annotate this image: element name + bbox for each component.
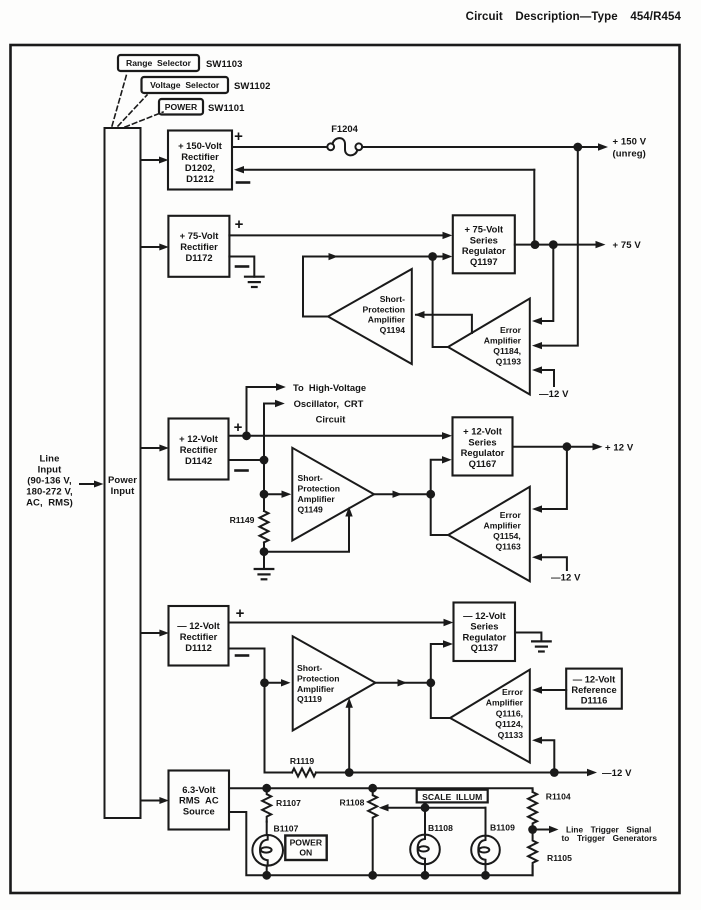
svg-text:+: + [234, 419, 243, 436]
regulator Q1137 box [454, 603, 516, 662]
svg-text:Regulator: Regulator [463, 632, 507, 643]
source 6.3V box [169, 771, 230, 830]
Line Input label [26, 454, 73, 509]
svg-text:Q1116,: Q1116, [496, 708, 523, 718]
node junction Q1149 output [426, 490, 435, 499]
svg-text:—12 V: —12 V [551, 573, 581, 584]
svg-text:Oscillator, CRT: Oscillator, CRT [294, 398, 364, 409]
wire D1142 + to regulator Q1167 [229, 435, 446, 437]
label +150 V (unreg) [613, 137, 647, 160]
svg-text:Circuit Description—Type 454: Circuit Description—Type 454/R454 [466, 11, 682, 23]
svg-text:Error: Error [500, 325, 522, 335]
svg-text:D1172: D1172 [185, 252, 212, 263]
svg-text:F1204: F1204 [331, 123, 358, 134]
svg-text:+ 75-Volt: + 75-Volt [464, 224, 503, 235]
node junction +75V a [531, 240, 540, 249]
svg-text:+ 12-Volt: + 12-Volt [179, 433, 218, 444]
op-amp Q1154 Q1163 error amplifier [448, 487, 530, 582]
wire bus to 6.3V source [141, 800, 162, 802]
wire fuse to +150V output [362, 146, 578, 148]
svg-text:to Trigger Generators: to Trigger Generators [562, 833, 658, 843]
svg-text:Voltage Selector: Voltage Selector [150, 80, 220, 90]
op-amp Q1149 short-protection amplifier [292, 448, 374, 541]
wire error amp Q1184 output to junction [433, 257, 448, 348]
svg-text:Regulator: Regulator [462, 245, 506, 256]
svg-text:ON: ON [299, 848, 312, 858]
node junction top rail R1107 [262, 784, 271, 793]
node junction +12V [563, 442, 572, 451]
svg-text:+ 75-Volt: + 75-Volt [180, 230, 219, 241]
op-amp Q1116 Q1124 Q1133 error amplifier [450, 670, 530, 763]
svg-text:(90-136 V,: (90-136 V, [27, 476, 72, 487]
svg-text:Q1149: Q1149 [298, 505, 324, 515]
svg-text:+ 75 V: + 75 V [613, 240, 642, 251]
svg-text:+ 150-Volt: + 150-Volt [178, 140, 222, 151]
wire R1149 to ground node [263, 542, 265, 569]
wire tap into Q1149 [264, 493, 284, 495]
wire Q1194 output loop to Q1197 input [303, 257, 433, 317]
potentiometer R1108 [340, 788, 378, 875]
regulator Q1167 box [453, 417, 513, 475]
svg-text:Amplifier: Amplifier [486, 698, 524, 708]
svg-text:Rectifier: Rectifier [180, 444, 218, 455]
node junction line trigger tap [528, 825, 537, 834]
wire line trigger arrow [533, 829, 551, 831]
svg-text:Error: Error [502, 687, 524, 697]
svg-text:D1116: D1116 [581, 695, 608, 706]
resistor R1105 [528, 830, 572, 876]
regulator Q1197 box [453, 215, 515, 273]
wire vertical -150 return down to +75V rail [533, 170, 535, 245]
resistor R1149 [230, 511, 269, 542]
svg-text:Q1167: Q1167 [469, 458, 497, 469]
wire wiper down to B1108 [424, 808, 426, 835]
lamp B1109 [471, 823, 515, 865]
wire arrow to +150V label [582, 146, 600, 148]
svg-text:AC, RMS): AC, RMS) [26, 498, 73, 509]
svg-text:D1212: D1212 [186, 173, 214, 184]
wire D1112 + to regulator Q1137 [229, 622, 447, 624]
svg-text:R1105: R1105 [547, 853, 572, 863]
svg-text:Short-: Short- [297, 663, 322, 673]
svg-text:Circuit: Circuit [316, 414, 346, 425]
svg-text:— 12-Volt: — 12-Volt [177, 620, 220, 631]
svg-text:—12 V: —12 V [602, 768, 632, 779]
svg-text:Q1137: Q1137 [471, 642, 499, 653]
ground (Q1137) [532, 641, 551, 651]
svg-text:— 12-Volt: — 12-Volt [463, 610, 506, 621]
svg-text:B1107: B1107 [274, 824, 299, 834]
wire D1116 into Q1116 [536, 689, 566, 691]
op-amp Q1184 Q1193 error amplifier [448, 299, 530, 395]
node junction wiper B1108 [421, 803, 430, 812]
svg-text:SCALE ILLUM: SCALE ILLUM [422, 792, 482, 802]
svg-text:+ 150 V: + 150 V [613, 137, 647, 148]
svg-text:Q1124,: Q1124, [495, 719, 523, 729]
svg-text:6.3-Volt: 6.3-Volt [182, 784, 215, 795]
svg-text:POWER: POWER [290, 838, 323, 848]
wire feedback into Q1149 bottom [264, 513, 349, 552]
node junction +75V b [549, 240, 558, 249]
svg-text:SW1102: SW1102 [234, 81, 271, 92]
svg-text:+: + [236, 605, 245, 622]
wire junction up into Q1167 [431, 460, 444, 494]
switch label box SW1102 (Voltage Selector) [142, 77, 271, 93]
svg-text:+ 12 V: + 12 V [605, 443, 634, 454]
wire D1172 - to ground [229, 257, 254, 277]
node junction below R1149 [260, 547, 269, 556]
wire to high-voltage oscillator branch 2 [264, 404, 277, 461]
svg-text:Rectifier: Rectifier [180, 241, 218, 252]
wire vertical +150V feedback down to error amp U1184 [536, 147, 578, 346]
op-amp Q1119 short-protection amplifier [293, 636, 376, 730]
rectifier D1172 box [168, 216, 229, 277]
svg-text:R1108: R1108 [340, 798, 365, 808]
svg-text:Amplifier: Amplifier [368, 315, 406, 325]
svg-text:R1119: R1119 [290, 756, 315, 766]
svg-text:Rectifier: Rectifier [181, 151, 219, 162]
svg-text:+: + [235, 216, 244, 233]
svg-text:Reference: Reference [571, 684, 616, 695]
switch label box SW1103 (Range Selector) [118, 55, 243, 71]
svg-text:B1108: B1108 [428, 823, 453, 833]
wire +75V feedback into Q1184 input 1 [536, 245, 553, 321]
wire D1142 - to sense node [229, 459, 265, 461]
svg-text:R1107: R1107 [276, 798, 301, 808]
svg-text:SW1101: SW1101 [208, 103, 245, 114]
wire B1107 to bottom rail [266, 866, 268, 876]
node junction bottom rail R1108 [368, 871, 377, 880]
svg-text:R1149: R1149 [230, 515, 255, 525]
minus label D1202 [237, 181, 249, 184]
svg-text:R1104: R1104 [546, 792, 571, 802]
dashed leader to SW1101 [125, 112, 163, 127]
svg-text:Amplifier: Amplifier [484, 336, 522, 346]
svg-text:Range Selector: Range Selector [126, 58, 192, 68]
svg-text:Q1197: Q1197 [470, 256, 498, 267]
svg-text:Series: Series [468, 436, 496, 447]
wire +12V feedback into Q1154 [536, 447, 567, 509]
wire junction up into Q1137 [431, 644, 445, 683]
svg-text:Q1194: Q1194 [380, 325, 406, 335]
wire -12V rail [265, 772, 293, 774]
svg-text:SW1103: SW1103 [206, 59, 243, 70]
svg-text:Series: Series [470, 234, 498, 245]
dashed leader to SW1102 [118, 95, 147, 126]
svg-text:Q1119: Q1119 [297, 694, 322, 704]
wire error amp Q1116 output to junction [431, 683, 450, 718]
minus label D1142 [236, 469, 248, 472]
svg-text:Q1184,: Q1184, [493, 346, 521, 356]
svg-text:—12 V: —12 V [539, 389, 569, 400]
svg-text:Regulator: Regulator [461, 447, 505, 458]
wire junction to Q1197 [433, 256, 445, 258]
svg-text:D1112: D1112 [185, 642, 212, 653]
svg-text:Protection: Protection [363, 304, 406, 314]
wire Q1119 output to junction [375, 682, 430, 684]
svg-text:— 12-Volt: — 12-Volt [573, 674, 616, 685]
node junction Q1149 input tap [260, 490, 269, 499]
wire R1108 wiper arrow [388, 807, 486, 809]
wire -150 return (arrow into D1202) [234, 166, 244, 173]
svg-text:POWER: POWER [165, 102, 198, 112]
svg-text:Source: Source [183, 806, 215, 817]
svg-text:Protection: Protection [298, 484, 341, 494]
wire to high-voltage oscillator branch 1 [247, 387, 279, 436]
wire Q1194 input tap [416, 315, 472, 334]
wire -12V supply into Q1184 input 3 [536, 370, 554, 386]
op-amp Q1194 short-protection amplifier [328, 269, 412, 364]
svg-text:(unreg): (unreg) [613, 149, 646, 160]
wire error amp Q1154 output to junction [431, 494, 449, 535]
wire 6.3V top rail [229, 788, 533, 792]
rectifier D1112 box [169, 606, 229, 666]
svg-text:Amplifier: Amplifier [484, 521, 522, 531]
fuse F1204 [327, 123, 362, 155]
node junction Q1119 output [426, 678, 435, 687]
svg-text:Protection: Protection [297, 673, 340, 683]
ground (D1172) [245, 277, 264, 287]
resistor R1107 [262, 788, 301, 821]
wire Q1197 output to +75V [515, 244, 598, 246]
resistor R1119 [290, 756, 316, 777]
wire R1119 to -12V output [316, 772, 590, 774]
lamp B1107 [252, 822, 298, 866]
node junction -12V rail [550, 768, 559, 777]
wire D1172 + to regulator Q1197 [229, 234, 445, 236]
svg-text:Amplifier: Amplifier [298, 494, 336, 504]
wire D1202 + to fuse [232, 146, 327, 148]
wire Q1167 output to +12V [513, 446, 596, 448]
dashed leader to SW1103 [112, 73, 127, 126]
node junction top rail R1108 [368, 784, 377, 793]
wire bus to -12V rectifier [141, 632, 162, 634]
wire up into Q1119 bottom [348, 704, 350, 773]
svg-text:D1142: D1142 [185, 455, 212, 466]
minus label D1112 [236, 654, 248, 657]
wire bus to +150V rectifier [141, 159, 162, 161]
svg-text:Input: Input [38, 465, 62, 476]
svg-text:Q1163: Q1163 [495, 542, 521, 552]
ground (R1149) [255, 569, 274, 579]
Power Input box [105, 128, 141, 818]
reference box D1116 [566, 669, 622, 709]
resistor R1104 [528, 790, 571, 829]
wire bus to +75V rectifier [141, 246, 162, 248]
wire sense vertical [263, 460, 265, 511]
svg-text:To High-Voltage: To High-Voltage [293, 382, 366, 393]
svg-text:Line: Line [40, 454, 60, 465]
svg-text:B1109: B1109 [490, 823, 515, 833]
node junction feedback Q1119 [345, 768, 354, 777]
wire -12V supply into Q1154 [536, 557, 567, 570]
node junction on +12 rectifier output [242, 431, 251, 440]
svg-text:Amplifier: Amplifier [297, 684, 335, 694]
lamp B1108 [410, 823, 453, 864]
wire B1108 to bottom rail [424, 864, 426, 875]
svg-text:Series: Series [470, 621, 498, 632]
svg-text:RMS AC: RMS AC [179, 795, 219, 806]
svg-text:Q1133: Q1133 [498, 730, 524, 740]
node junction bottom rail B1108 [421, 871, 430, 880]
node junction +150V [573, 143, 582, 152]
svg-text:Short-: Short- [380, 294, 405, 304]
POWER ON label box [285, 836, 326, 861]
rectifier D1142 box [169, 419, 229, 480]
wire Q1149 output to junction [374, 493, 431, 495]
svg-text:Q1193: Q1193 [496, 357, 522, 367]
svg-text:Short-: Short- [298, 473, 323, 483]
label to high-voltage oscillator [293, 382, 366, 425]
label line trigger signal [562, 825, 658, 844]
node junction bottom rail B1107 [262, 871, 271, 880]
wire tap into Q1119 [265, 682, 284, 684]
minus label D1172 [236, 265, 248, 268]
svg-text:Rectifier: Rectifier [180, 631, 218, 642]
wire -12V rail feedback into Q1116 [536, 740, 554, 772]
wire B1109 to bottom rail [485, 864, 487, 875]
svg-text:D1202,: D1202, [185, 162, 215, 173]
node junction bottom rail B1109 [481, 871, 490, 880]
wire line input arrow [80, 483, 96, 485]
svg-text:Q1154,: Q1154, [493, 531, 521, 541]
node junction on -12 sense [260, 456, 269, 465]
rectifier D1202 box [168, 131, 232, 190]
node junction feedback into Q1197 [428, 252, 437, 261]
switch label box SW1101 (POWER) [159, 99, 245, 115]
svg-text:+: + [234, 128, 243, 145]
SCALE ILLUM label box [417, 790, 488, 803]
node junction Q1119 input tap [260, 678, 269, 687]
svg-text:180-272 V,: 180-272 V, [26, 487, 73, 498]
svg-text:Power: Power [108, 475, 137, 486]
svg-text:+ 12-Volt: + 12-Volt [463, 426, 502, 437]
svg-text:Input: Input [111, 486, 135, 497]
svg-text:Error: Error [500, 510, 522, 520]
wire bus to +12V rectifier [141, 447, 162, 449]
wire D1112 - down to -12V rail [229, 649, 265, 773]
wire wiper down to B1109 [485, 808, 487, 836]
wire 6.3V return to bottom rail [229, 812, 533, 875]
wire Q1137 to ground [515, 633, 541, 642]
